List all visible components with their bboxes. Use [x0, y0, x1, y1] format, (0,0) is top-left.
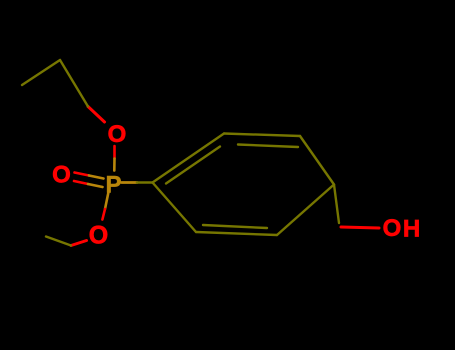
svg-text:O: O — [89, 222, 108, 250]
svg-text:H: H — [403, 216, 420, 243]
svg-text:O: O — [108, 121, 127, 148]
svg-text:O: O — [383, 215, 402, 242]
svg-text:O: O — [52, 161, 71, 188]
svg-text:P: P — [105, 172, 121, 199]
